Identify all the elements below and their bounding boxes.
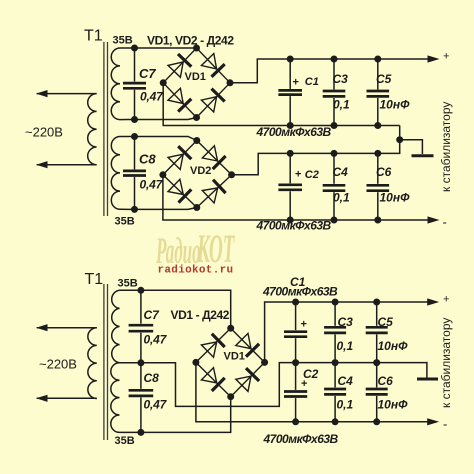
capacitor C5 (top)	[377, 59, 379, 90]
node VD2 right (+)	[228, 171, 235, 178]
transformer T1 secondary winding I (top)	[111, 48, 134, 120]
bridge VD2 edge L-B	[163, 175, 197, 208]
svg-text:~220В: ~220В	[39, 357, 77, 372]
transformer T1 primary winding (top)	[88, 94, 97, 165]
bridge VD1 diode L-T	[201, 342, 216, 357]
bridge VD1 diode B-R	[236, 376, 251, 391]
svg-text:Т1: Т1	[84, 28, 103, 45]
transformer T1 primary winding (bottom)	[88, 328, 97, 399]
capacitor C4 (top)	[333, 153, 335, 183]
capacitor C3 (bottom)	[334, 302, 336, 326]
bridge VD1 diode L-B	[201, 368, 216, 383]
wire rail I to common node (top)	[399, 126, 401, 140]
svg-text:C4: C4	[338, 374, 354, 388]
bridge VD1 diode T-R	[236, 333, 251, 348]
capacitor C5 (bottom)	[376, 302, 378, 326]
capacitor C7 (bottom)	[140, 290, 142, 323]
node common junction (top)	[396, 136, 403, 143]
bridge VD1 diode B-R	[201, 97, 216, 112]
node C3 top junction (top)	[331, 56, 338, 63]
svg-text:+: +	[443, 294, 449, 306]
wire primary top lead (bottom)	[37, 327, 97, 329]
node winding I bottom junction (top)	[131, 116, 138, 123]
output arrow + (bottom)	[427, 298, 439, 305]
capacitor C8 (top)	[134, 137, 136, 170]
svg-text:0,47: 0,47	[144, 398, 168, 412]
output arrow - (top)	[428, 216, 440, 223]
svg-text:10нФ: 10нФ	[380, 98, 411, 112]
node C4 bottom junction (bottom)	[332, 418, 339, 425]
bridge VD1 edge T-R	[197, 48, 231, 83]
AC input arrow bottom (top)	[36, 161, 48, 168]
node C1 bottom junction (bottom)	[292, 359, 299, 366]
node VD1 left (-)	[160, 79, 167, 86]
capacitor C1 (top)	[289, 59, 291, 89]
svg-text:+: +	[293, 77, 299, 89]
node VD1 bottom (AC)	[193, 114, 200, 121]
svg-text:35В: 35В	[115, 435, 135, 447]
bridge VD1 diode T-R	[201, 54, 216, 69]
bridge VD2 edge L-T	[163, 141, 197, 175]
bridge VD2 edge B-R	[197, 175, 232, 208]
AC input arrow top (top)	[36, 90, 48, 97]
svg-text:radiokot.ru: radiokot.ru	[158, 265, 234, 277]
svg-text:35В: 35В	[113, 35, 133, 47]
svg-text:C3: C3	[333, 72, 349, 86]
capacitor C2 (bottom)	[295, 363, 297, 390]
wire primary bottom lead (top)	[37, 164, 97, 166]
svg-text:VD1, VD2 - Д242: VD1, VD2 - Д242	[147, 34, 234, 48]
bridge VD2 diode B-R	[202, 188, 217, 203]
node winding I top junction (bottom)	[137, 287, 144, 294]
node center tap junction (bottom)	[137, 359, 144, 366]
svg-text:C8: C8	[144, 371, 160, 385]
node VD1 top (AC)	[193, 45, 200, 52]
capacitor C8 (bottom)	[140, 363, 142, 389]
node winding I top junction (top)	[131, 45, 138, 52]
wire winding I bottom to VD1 (top)	[135, 118, 197, 120]
bridge VD2 diode L-B	[168, 179, 183, 194]
svg-text:0,47: 0,47	[140, 178, 164, 192]
wire primary top lead (top)	[37, 93, 97, 95]
bridge VD1 edge B-R	[197, 83, 231, 118]
node VD1 left (-)	[192, 359, 199, 366]
common terminal bar (bottom)	[417, 378, 438, 381]
bridge VD1 edge B-R	[231, 362, 265, 396]
node C3 bottom junction (top)	[331, 122, 338, 129]
node VD1 bottom (AC)	[227, 393, 234, 400]
svg-text:0,47: 0,47	[144, 333, 168, 347]
bridge VD1 diode L-T	[168, 62, 183, 77]
svg-text:C8: C8	[139, 152, 156, 167]
svg-text:0,1: 0,1	[337, 339, 354, 353]
wire VD1 minus output rail (top)	[163, 83, 400, 126]
capacitor C6 (bottom)	[376, 363, 378, 388]
output arrow + (top)	[428, 55, 440, 62]
svg-text:C5: C5	[378, 315, 394, 329]
node VD2 top (AC)	[193, 137, 200, 144]
svg-text:к стабилизатору: к стабилизатору	[439, 102, 453, 192]
svg-text:4700мкФх63В: 4700мкФх63В	[262, 285, 338, 299]
transformer T1 secondary winding II (top)	[111, 137, 134, 210]
transformer T1 secondary winding I (bottom)	[112, 290, 141, 363]
node C4 top junction (top)	[331, 150, 338, 157]
wire winding II bottom to VD1 bottom node (bottom)	[141, 397, 231, 433]
capacitor C4 (bottom)	[334, 363, 336, 388]
svg-text:4700мкФх63В: 4700мкФх63В	[256, 125, 332, 139]
wire primary bottom lead (bottom)	[37, 397, 97, 399]
node C5 bottom junction (top)	[374, 122, 381, 129]
svg-text:C6: C6	[376, 165, 392, 179]
transformer T1 secondary winding II (bottom)	[111, 363, 141, 433]
svg-text:C6: C6	[378, 374, 394, 388]
node C6 bottom junction (top)	[374, 217, 381, 224]
svg-text:C1: C1	[305, 76, 319, 88]
svg-text:4700мкФх63В: 4700мкФх63В	[263, 432, 339, 446]
bridge VD1 diode L-B	[168, 88, 183, 103]
node VD1 top (AC)	[227, 325, 234, 332]
watermark Радио КОТ	[155, 226, 235, 272]
transformer T1 core (bottom)	[103, 284, 105, 440]
wire winding II top to VD2 (top)	[135, 137, 197, 141]
wire VD1 minus output to -35V rail (bottom)	[196, 362, 428, 421]
wire winding I top to VD1 top node (bottom)	[141, 290, 231, 328]
node C3 bottom junction (bottom)	[332, 359, 339, 366]
node C2 top junction (top)	[287, 150, 294, 157]
node C1 bottom junction (top)	[287, 122, 294, 129]
svg-text:C2: C2	[305, 169, 319, 181]
svg-text:35В: 35В	[118, 278, 138, 290]
node VD2 left (-)	[159, 171, 166, 178]
svg-text:10нФ: 10нФ	[378, 339, 409, 353]
node VD2 bottom (AC)	[193, 204, 200, 211]
node C5 bottom junction (bottom)	[373, 359, 380, 366]
svg-text:0,47: 0,47	[140, 90, 164, 104]
common terminal bar (top)	[412, 154, 434, 157]
node C2 bottom junction (top)	[287, 217, 294, 224]
svg-text:+: +	[301, 319, 307, 331]
svg-text:VD1: VD1	[185, 71, 206, 83]
node winding II bottom junction (bottom)	[137, 429, 144, 436]
svg-text:+: +	[443, 51, 449, 63]
wire winding I top to VD1 (top)	[135, 47, 197, 49]
svg-text:~220В: ~220В	[25, 125, 63, 140]
node C1 top junction (top)	[287, 56, 294, 63]
svg-text:-: -	[443, 417, 447, 432]
svg-text:+: +	[301, 378, 307, 390]
svg-text:-: -	[443, 215, 447, 230]
svg-text:+: +	[295, 169, 301, 181]
svg-text:VD1 - Д242: VD1 - Д242	[171, 308, 230, 322]
node C2 bottom junction (bottom)	[292, 418, 299, 425]
node C6 top junction (top)	[374, 150, 381, 157]
svg-text:VD2: VD2	[190, 165, 211, 177]
wire VD1 plus output to +35V rail (top)	[230, 59, 429, 83]
capacitor C3 (top)	[333, 59, 335, 90]
wire common node to rail II (top)	[232, 140, 400, 175]
svg-text:к стабилизатору: к стабилизатору	[439, 318, 453, 408]
svg-text:C7: C7	[144, 308, 161, 322]
capacitor C1 (bottom)	[295, 302, 297, 330]
bridge VD1 edge L-T	[196, 328, 231, 362]
wire VD1 plus output to +35V rail (bottom)	[265, 302, 429, 362]
capacitor C6 (top)	[377, 153, 379, 183]
wire winding II bottom to VD2 (top)	[135, 208, 197, 210]
wire common node to terminal (top)	[400, 140, 423, 154]
bridge VD1 edge T-R	[231, 328, 265, 362]
svg-text:4700мкФх63В: 4700мкФх63В	[256, 219, 332, 233]
AC input arrow top (bottom)	[36, 324, 48, 331]
wire center tap to common rail (bottom)	[141, 363, 427, 407]
node VD1 right (+)	[261, 359, 268, 366]
bridge VD1 edge L-B	[163, 83, 196, 118]
node C4 bottom junction (top)	[331, 217, 338, 224]
node C5 top junction (top)	[374, 56, 381, 63]
node winding II top junction (top)	[131, 133, 138, 140]
capacitor C7 (top)	[134, 48, 136, 82]
wire VD2 minus output to -35V rail (top)	[163, 175, 429, 220]
node C5 top junction (bottom)	[373, 299, 380, 306]
node C3 top junction (bottom)	[332, 299, 339, 306]
node C1 top junction (bottom)	[292, 299, 299, 306]
node C6 bottom junction (bottom)	[373, 418, 380, 425]
node VD1 right (+)	[227, 79, 234, 86]
node winding II bottom junction (top)	[131, 206, 138, 213]
bridge VD1 edge L-B	[196, 362, 231, 396]
svg-text:10нФ: 10нФ	[378, 398, 409, 412]
svg-text:VD1: VD1	[224, 351, 245, 363]
svg-text:10нФ: 10нФ	[380, 191, 411, 205]
bridge VD2 edge T-R	[197, 141, 232, 175]
svg-text:C4: C4	[333, 165, 349, 179]
svg-text:Т1: Т1	[85, 271, 104, 288]
capacitor C2 (top)	[289, 153, 291, 183]
svg-text:0,1: 0,1	[337, 398, 354, 412]
transformer T1 core (top)	[103, 42, 105, 216]
svg-text:C5: C5	[376, 72, 392, 86]
svg-text:C3: C3	[338, 315, 354, 329]
output arrow - (bottom)	[427, 418, 439, 425]
svg-text:35В: 35В	[115, 216, 135, 228]
bridge VD2 diode T-R	[202, 146, 217, 161]
bridge VD1 edge L-T	[163, 48, 196, 83]
AC input arrow bottom (bottom)	[36, 395, 48, 402]
svg-text:C7: C7	[139, 66, 156, 81]
svg-text:0,1: 0,1	[333, 98, 350, 112]
svg-text:0,1: 0,1	[333, 191, 350, 205]
bridge VD2 diode L-T	[168, 154, 183, 169]
